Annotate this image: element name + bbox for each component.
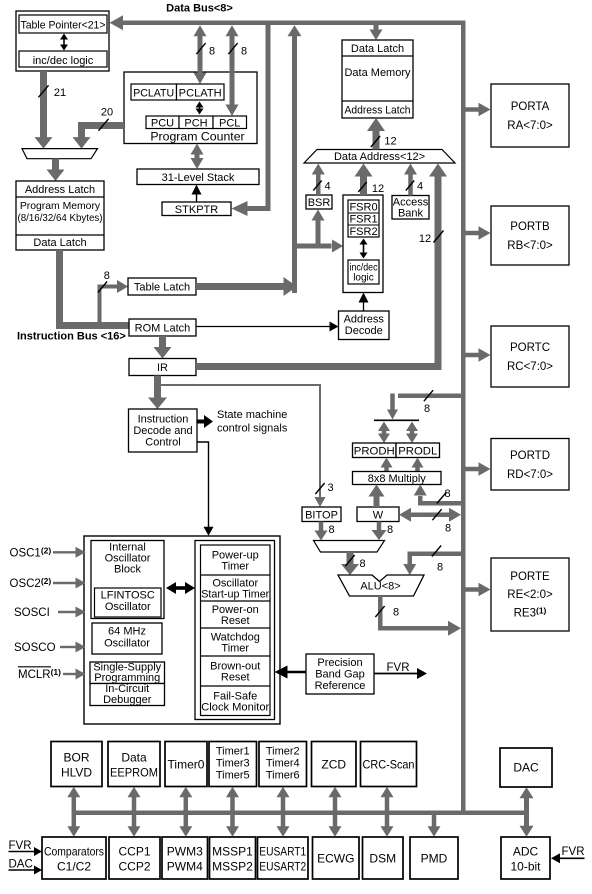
- svg-text:12: 12: [419, 233, 431, 245]
- svg-text:8: 8: [209, 46, 215, 58]
- box W register: [357, 507, 399, 522]
- box DAC top: [500, 748, 552, 787]
- slash 8 label alu out: [375, 606, 399, 619]
- box PORTA: [491, 84, 569, 147]
- arrow state machine output: [197, 415, 213, 428]
- svg-text:PRODH: PRODH: [354, 446, 395, 458]
- arrow IR bus up to data address 12: [429, 164, 447, 367]
- svg-text:PCLATU: PCLATU: [133, 87, 174, 99]
- box Internal Oscillator Block: [91, 541, 164, 619]
- box PORTD: [491, 439, 569, 491]
- box BITOP: [302, 507, 341, 522]
- box oscillator section outer: [84, 536, 280, 724]
- box Data Memory block: [342, 40, 413, 118]
- wire IR to BITOP 3-bit: [158, 385, 326, 507]
- box MSSP1/MSSP2: [210, 837, 256, 879]
- wire trunk to multiply 8: [414, 485, 461, 506]
- arrow node to PRODL double: [406, 422, 418, 432]
- arrow multiply to PRODH: [381, 458, 393, 472]
- svg-text:PCL: PCL: [219, 117, 240, 129]
- svg-text:FVR: FVR: [562, 846, 585, 858]
- box PRODL: [396, 443, 440, 458]
- box Single-Supply Programming: [90, 661, 165, 684]
- arrow multiply to PRODL: [412, 458, 424, 472]
- input DAC comparators: [9, 859, 43, 875]
- svg-text:Oscillator: Oscillator: [105, 601, 151, 613]
- svg-text:21: 21: [54, 87, 66, 99]
- svg-text:4: 4: [324, 181, 330, 193]
- wire data bus branch to FSR: [292, 240, 343, 253]
- box Timer1/Timer3/Timer5: [209, 742, 257, 787]
- box PORTE: [491, 558, 569, 631]
- svg-text:STKPTR: STKPTR: [175, 204, 218, 216]
- trapezoid Data Address<12>: [304, 150, 455, 164]
- svg-text:Data Bus<8>: Data Bus<8>: [166, 3, 233, 15]
- arrow trunk to PORTD: [466, 462, 491, 476]
- slash 8 label on PCL arrow: [228, 43, 247, 58]
- svg-text:Table Pointer<21>: Table Pointer<21>: [21, 20, 106, 32]
- svg-text:BITOP: BITOP: [305, 509, 338, 521]
- input MCLR: [18, 667, 86, 681]
- svg-text:Timer0: Timer0: [168, 757, 205, 771]
- svg-text:PCU: PCU: [151, 117, 174, 129]
- input OSC1: [10, 545, 86, 559]
- box PORTB: [491, 206, 569, 265]
- slash 12 label dm: [371, 136, 397, 148]
- svg-text:MSSP1: MSSP1: [212, 844, 253, 858]
- svg-text:10-bit: 10-bit: [510, 859, 541, 873]
- svg-text:Timer4: Timer4: [266, 758, 300, 770]
- arrow bus to PMD: [428, 815, 441, 837]
- box 64 MHz Oscillator: [92, 623, 162, 654]
- svg-text:RB<7:0>: RB<7:0>: [507, 240, 553, 252]
- arrow band gap FVR output: [374, 662, 427, 679]
- arrow 20-bit PC to mux: [73, 122, 125, 149]
- svg-text:RE<2:0>: RE<2:0>: [507, 589, 553, 601]
- svg-text:PORTE: PORTE: [510, 571, 550, 583]
- svg-text:PCH: PCH: [184, 117, 207, 129]
- svg-text:8: 8: [241, 46, 247, 58]
- svg-text:Oscillator: Oscillator: [104, 638, 150, 650]
- arrow CRC-DSM double: [381, 787, 394, 837]
- svg-text:PRODL: PRODL: [398, 446, 437, 458]
- box Program Memory block: [16, 181, 104, 250]
- svg-text:(8/16/32/64 Kbytes): (8/16/32/64 Kbytes): [18, 213, 103, 224]
- svg-text:8: 8: [437, 562, 443, 574]
- arrow DAC to ADC double: [520, 787, 534, 837]
- box PMD: [410, 837, 458, 879]
- arrow BITOP to alu mux 8: [315, 522, 328, 541]
- slash 3 label: [315, 482, 333, 494]
- arrow FSR to data address 12: [355, 164, 373, 196]
- arrow ROM latch to IR: [154, 336, 172, 359]
- box CCP1/CCP2: [109, 837, 160, 879]
- svg-text:Address Latch: Address Latch: [345, 105, 411, 117]
- arrow table latch output to data bus line: [196, 277, 297, 296]
- arrow PCLATH-PCH double: [196, 102, 204, 115]
- svg-text:Band Gap: Band Gap: [315, 669, 365, 681]
- svg-text:8: 8: [424, 403, 430, 415]
- arrow data bus to PCL 8-bit: [226, 25, 239, 116]
- svg-text:8: 8: [387, 524, 393, 536]
- svg-text:DAC: DAC: [513, 760, 539, 774]
- svg-text:Address Latch: Address Latch: [25, 184, 95, 196]
- svg-text:PORTC: PORTC: [510, 342, 550, 354]
- svg-text:Comparators: Comparators: [44, 844, 104, 858]
- arrow node to PRODH double: [378, 422, 390, 432]
- box In-Circuit Debugger: [90, 683, 165, 706]
- svg-text:PCLATH: PCLATH: [179, 87, 222, 99]
- box PWM3/PWM4: [162, 837, 208, 879]
- wire trunk to ALU 8: [403, 552, 461, 576]
- svg-text:DAC: DAC: [9, 859, 33, 871]
- box Table Pointer block: [16, 11, 109, 71]
- slash 8 label alu left: [345, 555, 365, 570]
- wire vertical up to data bus: [288, 25, 302, 293]
- svg-text:Timer3: Timer3: [216, 758, 250, 770]
- svg-text:64 MHz: 64 MHz: [108, 626, 146, 638]
- box FSR block: [343, 195, 383, 293]
- input FVR comparators: [9, 840, 43, 856]
- svg-text:RD<7:0>: RD<7:0>: [507, 469, 553, 481]
- arrow STKPTR to stack: [192, 185, 202, 203]
- box CRC-Scan: [361, 742, 417, 787]
- svg-text:Timer2: Timer2: [266, 746, 300, 758]
- svg-text:Precision: Precision: [317, 657, 362, 669]
- input SOSCO: [14, 642, 86, 655]
- arrow alu mux to ALU 8: [341, 552, 359, 575]
- arrow ROM latch to address decode: [196, 322, 339, 332]
- svg-text:31-Level Stack: 31-Level Stack: [162, 172, 235, 184]
- svg-text:PWM4: PWM4: [167, 859, 203, 873]
- svg-text:4: 4: [417, 181, 423, 193]
- box IR: [129, 359, 196, 376]
- svg-text:Control: Control: [145, 437, 180, 449]
- bus IR output to data address: [196, 363, 442, 370]
- slash 4 label bsr: [313, 181, 330, 193]
- svg-text:PWM3: PWM3: [167, 844, 203, 858]
- svg-text:8: 8: [393, 607, 399, 619]
- box DSM: [363, 837, 404, 879]
- svg-text:inc/dec logic: inc/dec logic: [33, 55, 94, 67]
- bus instruction path from data latch: [56, 250, 129, 329]
- box BSR: [306, 195, 332, 209]
- slash 8 label table latch: [98, 270, 110, 293]
- arrow band gap to brown-out reset: [275, 666, 307, 679]
- svg-text:PORTD: PORTD: [510, 450, 550, 462]
- bus right trunk vertical: [461, 21, 466, 816]
- svg-text:EUSART2: EUSART2: [259, 859, 306, 873]
- svg-text:Data: Data: [121, 751, 147, 765]
- bus bottom peripheral horizontal: [72, 811, 528, 816]
- box Precision Band Gap Reference: [306, 654, 374, 694]
- input FVR ADC: [551, 846, 585, 863]
- svg-text:Start-up Timer: Start-up Timer: [201, 589, 269, 601]
- arrow ZCD-ECWG double: [329, 787, 342, 837]
- label state machine control signals: [217, 409, 288, 435]
- arrow data address to address latch 12: [367, 118, 385, 150]
- svg-text:State machine: State machine: [217, 409, 287, 421]
- box Timer0: [165, 742, 207, 787]
- svg-text:ALU<8>: ALU<8>: [360, 581, 400, 593]
- slash 8 label w right: [432, 509, 451, 534]
- box Data/EEPROM: [108, 742, 160, 787]
- wire decode to oscillator section: [197, 442, 214, 536]
- arrow BSR to data address 4: [312, 164, 325, 196]
- svg-text:CCP2: CCP2: [118, 859, 150, 873]
- svg-text:FVR: FVR: [387, 662, 410, 674]
- svg-text:Debugger: Debugger: [103, 694, 152, 706]
- svg-text:Bank: Bank: [398, 208, 424, 220]
- arrow Timer135-MSSP double: [226, 787, 239, 837]
- slash 21 label: [38, 85, 66, 99]
- svg-text:Table Latch: Table Latch: [134, 282, 190, 294]
- box PRODH: [353, 443, 397, 458]
- svg-text:EUSART1: EUSART1: [259, 844, 306, 858]
- svg-text:Decode: Decode: [345, 325, 383, 337]
- svg-text:8: 8: [445, 523, 451, 535]
- svg-text:12: 12: [384, 136, 396, 148]
- svg-text:Timer: Timer: [221, 643, 249, 655]
- wire 8-bit to table latch: [98, 280, 129, 322]
- box ROM Latch: [129, 319, 196, 336]
- svg-text:logic: logic: [353, 273, 374, 284]
- arrow trunk to PORTB: [466, 226, 491, 240]
- svg-text:8: 8: [444, 488, 450, 500]
- box PORTC: [491, 326, 569, 387]
- box reset timers column: [195, 541, 275, 720]
- svg-text:ECWG: ECWG: [317, 851, 354, 865]
- svg-text:MSSP2: MSSP2: [212, 859, 253, 873]
- arrow Timer0-PWM double: [179, 787, 192, 837]
- svg-text:8x8 Multiply: 8x8 Multiply: [368, 473, 427, 485]
- svg-text:Block: Block: [114, 564, 141, 576]
- input OSC2: [10, 576, 86, 590]
- node line above PRODH PRODL: [374, 419, 419, 421]
- svg-text:Timer6: Timer6: [266, 770, 300, 782]
- svg-text:Reference: Reference: [315, 680, 366, 692]
- svg-text:Data Memory: Data Memory: [344, 67, 411, 79]
- svg-text:Timer1: Timer1: [216, 746, 250, 758]
- svg-text:8: 8: [328, 524, 334, 536]
- box 31-Level Stack: [137, 169, 259, 185]
- arrow trunk to PORTE: [466, 583, 491, 597]
- svg-text:PORTA: PORTA: [511, 101, 550, 113]
- svg-text:FVR: FVR: [9, 840, 32, 852]
- svg-text:Address: Address: [344, 314, 385, 326]
- svg-text:RA<7:0>: RA<7:0>: [507, 120, 553, 132]
- arrow table-pointer internal double: [60, 34, 68, 51]
- ALU shape: [338, 575, 424, 596]
- svg-text:ZCD: ZCD: [321, 757, 346, 771]
- box 8x8 Multiply: [353, 472, 442, 486]
- svg-text:Data Latch: Data Latch: [351, 43, 404, 55]
- svg-text:Data Address<12>: Data Address<12>: [334, 151, 425, 163]
- wire data bus to PROD registers 8: [387, 394, 461, 420]
- svg-text:ADC: ADC: [513, 844, 539, 858]
- trapezoid alu input mux: [314, 541, 385, 553]
- svg-text:12: 12: [372, 183, 384, 195]
- box EUSART1/EUSART2: [258, 837, 309, 879]
- slash 8 label alu right: [432, 546, 443, 574]
- box Address Decode: [339, 311, 390, 340]
- svg-text:DSM: DSM: [369, 851, 396, 865]
- svg-text:HLVD: HLVD: [61, 766, 92, 780]
- svg-text:Program Memory: Program Memory: [20, 201, 101, 212]
- svg-text:FSR1: FSR1: [349, 214, 377, 226]
- svg-text:control signals: control signals: [217, 423, 288, 435]
- arrow trunk to PORTA: [466, 103, 491, 117]
- svg-text:LFINTOSC: LFINTOSC: [101, 590, 155, 602]
- arrow mux to address latch: [47, 159, 65, 181]
- svg-text:SOSCO: SOSCO: [14, 642, 56, 654]
- arrow address decode to FSR inc-dec: [359, 293, 369, 312]
- svg-text:W: W: [373, 509, 384, 521]
- bus Data Bus horizontal: [110, 15, 466, 30]
- mux trapezoid program memory address: [22, 149, 98, 159]
- svg-text:CCP1: CCP1: [118, 844, 150, 858]
- box LFINTOSC Oscillator: [95, 588, 162, 617]
- svg-text:8: 8: [104, 270, 110, 282]
- arrow BOR-Comparators double: [67, 787, 80, 837]
- box Instruction Decode and Control: [129, 409, 198, 452]
- slash 8 label prod feed: [424, 390, 433, 415]
- arrow Timer246-EUSART double: [277, 787, 290, 837]
- arrow W to multiply: [369, 485, 385, 508]
- slash 8 label on PCLATU arrow: [196, 43, 215, 58]
- arrow EEPROM-CCP double: [128, 787, 141, 837]
- svg-text:Instruction: Instruction: [138, 414, 189, 426]
- box ADC/10-bit: [501, 837, 550, 879]
- box STKPTR: [162, 202, 231, 216]
- arrow data bus to data memory: [370, 25, 383, 40]
- svg-text:Instruction Bus <16>: Instruction Bus <16>: [17, 331, 126, 343]
- svg-text:C1/C2: C1/C2: [57, 859, 91, 873]
- svg-text:3: 3: [327, 482, 333, 494]
- arrow W to trunk double 8: [399, 508, 461, 522]
- svg-text:BOR: BOR: [63, 751, 89, 765]
- box Timer2/Timer4/Timer6: [259, 742, 307, 787]
- svg-text:EEPROM: EEPROM: [110, 766, 158, 780]
- svg-text:IR: IR: [157, 362, 168, 374]
- slash 20 label: [98, 106, 113, 131]
- svg-text:BSR: BSR: [308, 197, 331, 209]
- arrow 21-bit table pointer to mux: [35, 71, 53, 149]
- svg-text:Timer5: Timer5: [216, 770, 250, 782]
- svg-text:Reset: Reset: [221, 672, 250, 684]
- svg-text:SOSCI: SOSCI: [14, 607, 50, 619]
- svg-text:PMD: PMD: [421, 851, 448, 865]
- arrow oscillator to resets double: [166, 582, 195, 594]
- arrow trunk to PORTC: [466, 348, 491, 362]
- svg-text:RC<7:0>: RC<7:0>: [507, 361, 553, 373]
- slash 12 label right: [419, 231, 444, 246]
- box Program Counter block: [124, 72, 257, 144]
- slash 4 label access: [406, 181, 423, 193]
- svg-text:20: 20: [101, 106, 113, 118]
- arrow data bus to PCLATU 8-bit: [194, 25, 207, 84]
- slash 8 label multiply feed: [437, 488, 451, 504]
- svg-text:ROM Latch: ROM Latch: [135, 323, 191, 335]
- slash 12 label fsr: [358, 182, 384, 195]
- svg-text:Program Counter: Program Counter: [150, 130, 244, 144]
- arrow access bank to data address 4: [404, 164, 417, 196]
- svg-text:Clock Monitor: Clock Monitor: [201, 701, 269, 713]
- box ZCD: [312, 742, 357, 787]
- svg-text:CRC-Scan: CRC-Scan: [363, 757, 415, 771]
- box Table Latch: [128, 278, 196, 295]
- svg-text:FSR2: FSR2: [349, 226, 377, 238]
- arrow FSR internal double: [360, 239, 368, 259]
- arrow W to alu mux 8: [372, 522, 387, 541]
- svg-text:Data Latch: Data Latch: [33, 237, 86, 249]
- wire ALU output to trunk 8: [378, 596, 461, 636]
- wire data bus down to STKPTR: [232, 23, 271, 216]
- svg-text:PORTB: PORTB: [510, 221, 550, 233]
- arrow PC-stack double: [191, 144, 204, 170]
- box Comparators/C1/C2: [42, 837, 106, 879]
- box ECWG: [313, 837, 360, 879]
- box BOR/HLVD: [51, 742, 102, 787]
- svg-text:8: 8: [359, 558, 365, 570]
- svg-text:Decode and: Decode and: [133, 425, 192, 437]
- svg-text:Timer: Timer: [221, 561, 249, 573]
- arrow IR to instruction decode: [148, 376, 167, 410]
- input SOSCI: [14, 607, 86, 620]
- svg-text:Reset: Reset: [221, 615, 250, 627]
- box Access Bank: [392, 196, 429, 220]
- wire branch up to BSR: [312, 210, 325, 249]
- svg-text:FSR0: FSR0: [349, 201, 377, 213]
